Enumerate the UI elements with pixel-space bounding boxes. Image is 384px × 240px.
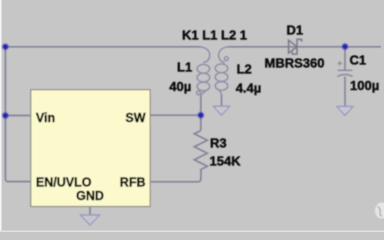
svg-text:MBRS360: MBRS360	[265, 55, 325, 70]
svg-text:C1: C1	[350, 52, 367, 67]
svg-text:Vin: Vin	[36, 111, 55, 125]
svg-text:100µ: 100µ	[350, 78, 379, 93]
svg-text:40µ: 40µ	[169, 79, 191, 94]
svg-text:SW: SW	[125, 111, 145, 125]
svg-text:RFB: RFB	[120, 175, 146, 189]
svg-text:L2: L2	[237, 61, 252, 76]
svg-text:4.4µ: 4.4µ	[236, 80, 262, 95]
svg-text:154K: 154K	[210, 153, 242, 168]
svg-text:K1 L1 L2 1: K1 L1 L2 1	[182, 28, 247, 43]
svg-text:D1: D1	[287, 22, 304, 37]
svg-text:L1: L1	[177, 59, 192, 74]
svg-text:GND: GND	[76, 189, 104, 203]
svg-text:R3: R3	[210, 135, 227, 150]
svg-text:EN/UVLO: EN/UVLO	[36, 175, 92, 189]
